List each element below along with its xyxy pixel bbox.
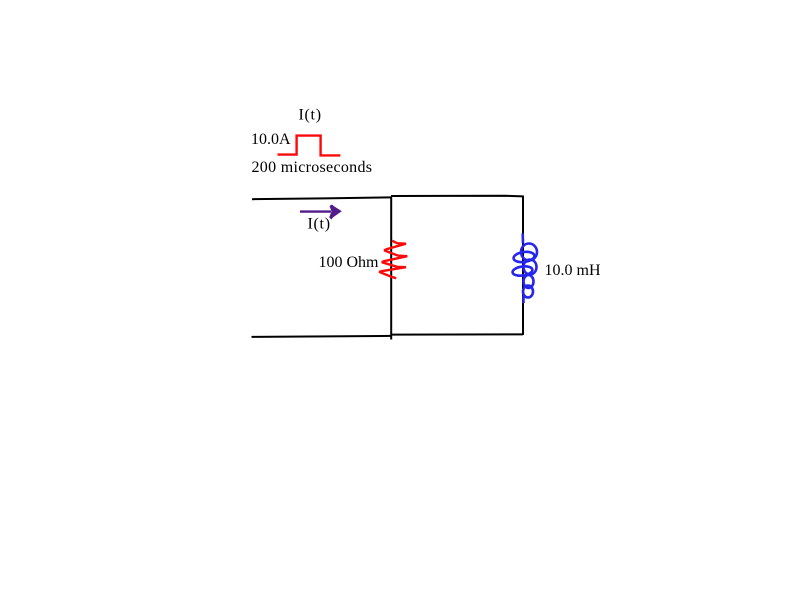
svg-text:I(t): I(t) <box>299 107 322 124</box>
inductor L1 coil loop 6 <box>523 286 533 298</box>
resistor R1 100 Ohm zigzag <box>379 241 407 279</box>
svg-text:10.0 mH: 10.0 mH <box>545 262 601 279</box>
svg-text:100 Ohm: 100 Ohm <box>319 254 380 271</box>
inductor L1 coil loop 1 <box>521 244 537 261</box>
wire bottom right segment <box>392 333 523 335</box>
inductor L1 10.0 mH top stub <box>521 234 524 244</box>
inductor L1 coil loop 4 <box>512 265 533 277</box>
svg-text:200 microseconds: 200 microseconds <box>252 159 373 176</box>
svg-text:I(t): I(t) <box>308 216 331 233</box>
inductor L1 coil loop 2 <box>513 251 535 264</box>
wire top right segment <box>391 195 523 198</box>
wire right vertical <box>522 196 524 336</box>
current arrow I(t) head <box>329 205 342 220</box>
current source pulse waveform <box>278 136 341 156</box>
inductor L1 coil loop 5 <box>524 275 534 288</box>
inductor L1 coil loop 3 <box>524 260 537 275</box>
wire middle vertical node A <box>390 197 392 340</box>
current arrow I(t) shaft <box>300 210 331 212</box>
svg-text:10.0A: 10.0A <box>251 131 291 148</box>
inductor L1 bottom stub <box>522 296 525 304</box>
wire top left segment <box>252 197 391 199</box>
wire bottom left segment <box>252 336 393 337</box>
